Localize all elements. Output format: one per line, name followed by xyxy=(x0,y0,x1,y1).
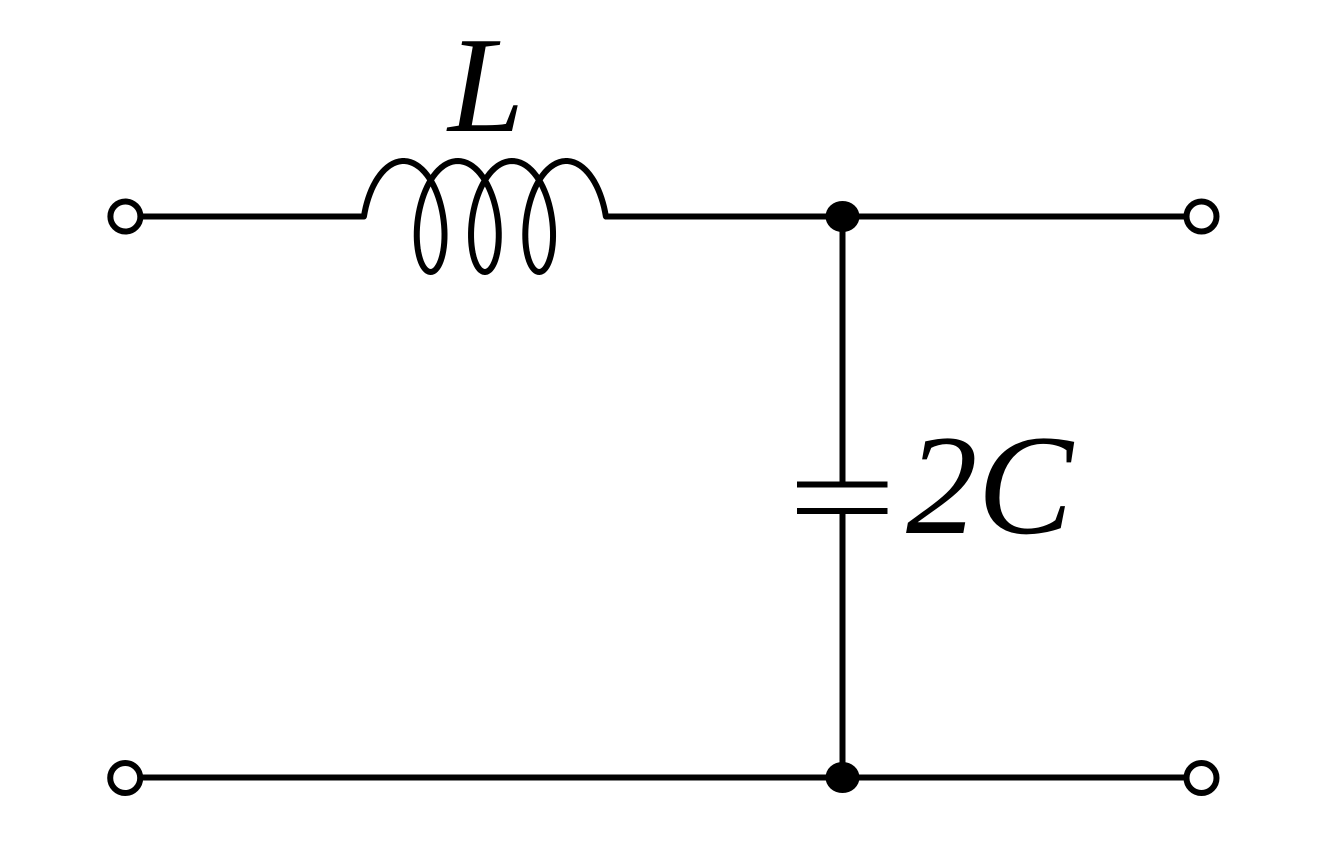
capacitor 2C bottom plate xyxy=(797,508,888,514)
wire capacitor upper lead xyxy=(840,217,846,485)
svg-text:2C: 2C xyxy=(906,406,1075,564)
terminal bottom-left xyxy=(110,763,140,793)
inductor L xyxy=(364,161,606,272)
svg-text:L: L xyxy=(446,9,524,161)
node bottom junction xyxy=(826,762,860,793)
wire bottom xyxy=(140,775,1186,781)
node top junction xyxy=(826,201,860,232)
wire capacitor lower lead xyxy=(840,511,846,778)
terminal bottom-right xyxy=(1187,763,1217,793)
terminal top-right xyxy=(1187,202,1217,232)
wire top-right segment xyxy=(605,214,1187,220)
capacitor 2C top plate xyxy=(797,482,888,488)
wire top-left segment xyxy=(141,214,365,220)
terminal top-left xyxy=(110,202,140,232)
